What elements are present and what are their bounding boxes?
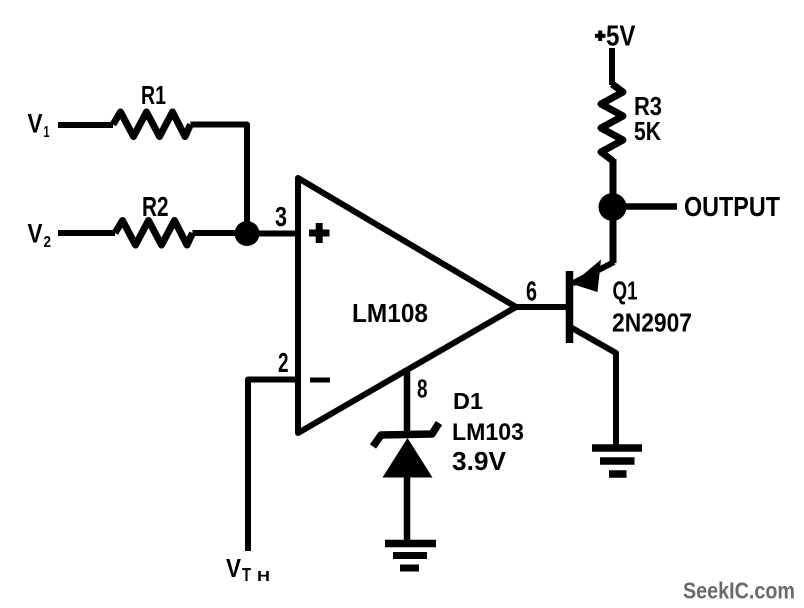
- wire diode to ground: [404, 476, 411, 541]
- node V2 label: [28, 219, 52, 252]
- wire emitter up through output node to R3: [610, 159, 617, 263]
- transistor Q1 collector: [572, 328, 616, 445]
- svg-text:V: V: [28, 219, 43, 249]
- op-amp U1 LM108 triangle: [298, 178, 516, 433]
- node V1 label: [28, 109, 50, 142]
- junction node dot: [235, 221, 260, 246]
- resistor R2: [115, 221, 193, 246]
- svg-text:3: 3: [275, 201, 287, 232]
- svg-text:2: 2: [44, 234, 52, 251]
- svg-text:LM103: LM103: [452, 419, 524, 446]
- wire pin 6 to base: [514, 304, 567, 310]
- svg-text:Q1: Q1: [613, 276, 638, 306]
- svg-text:R1: R1: [141, 82, 166, 110]
- zener diode D1 cathode bar: [373, 423, 439, 447]
- svg-text:H: H: [257, 568, 270, 585]
- transistor Q1 emitter with arrow: [572, 260, 614, 293]
- svg-text:2: 2: [278, 347, 289, 378]
- svg-text:R3: R3: [634, 91, 662, 121]
- transistor Q1 base bar: [566, 271, 574, 343]
- wire +5V to R3: [609, 48, 615, 85]
- wire pin 2 to VTH: [248, 380, 298, 552]
- svg-text:D1: D1: [453, 388, 483, 414]
- resistor R3: [601, 84, 623, 161]
- svg-text:V: V: [28, 109, 43, 139]
- node VTH label: [226, 553, 270, 585]
- svg-text:5K: 5K: [634, 118, 661, 146]
- wire pin 8: [404, 368, 411, 434]
- node OUTPUT dot: [599, 193, 627, 221]
- svg-text:5V: 5V: [606, 21, 636, 53]
- svg-text:T: T: [242, 565, 251, 585]
- wire V2 to R2: [58, 230, 115, 236]
- op-amp minus input symbol: [310, 378, 330, 383]
- svg-text:1: 1: [44, 124, 50, 141]
- svg-text:2N2907: 2N2907: [612, 310, 692, 338]
- wire junction to pin 3: [247, 231, 298, 237]
- svg-text:R2: R2: [142, 191, 169, 222]
- zener diode D1 anode triangle: [383, 438, 433, 478]
- svg-text:6: 6: [526, 276, 537, 307]
- svg-text:V: V: [226, 553, 242, 583]
- resistor R1: [113, 112, 191, 137]
- svg-text:SeekIC.com: SeekIC.com: [683, 578, 795, 604]
- wire R2 to junction: [193, 230, 241, 236]
- svg-text:OUTPUT: OUTPUT: [684, 191, 780, 222]
- op-amp plus input symbol: [309, 223, 330, 243]
- svg-text:3.9V: 3.9V: [452, 446, 507, 476]
- svg-text:8: 8: [417, 376, 428, 404]
- svg-text:LM108: LM108: [352, 298, 428, 328]
- wire V1 to R1: [58, 122, 113, 128]
- wire output stub: [612, 203, 677, 210]
- ground (below D1): [385, 544, 436, 569]
- wire R1 to junction corner: [191, 125, 248, 229]
- power +5V label: [595, 21, 636, 53]
- ground (below Q1): [592, 448, 642, 474]
